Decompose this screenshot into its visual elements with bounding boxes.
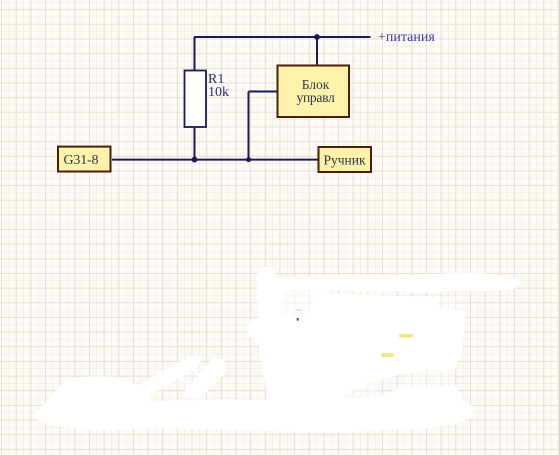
white eraser middle mass xyxy=(298,294,462,399)
leftover yellow dash 1 xyxy=(399,334,413,338)
svg-text:управл: управл xyxy=(297,90,335,105)
white eraser bottom band xyxy=(50,386,473,433)
svg-text:10k: 10k xyxy=(208,85,229,100)
white eraser right column xyxy=(424,306,466,371)
white eraser faint wash in right notch xyxy=(404,370,454,390)
connector G31-8 box xyxy=(58,147,111,172)
leftover faint grey dots xyxy=(297,309,301,311)
connector G31-8 label xyxy=(64,153,99,168)
wire vertical top wire to resistor top xyxy=(194,37,196,71)
white eraser blob top arc xyxy=(257,266,277,282)
leftover yellow dash 2 xyxy=(381,353,394,357)
svg-text:+питания: +питания xyxy=(378,30,435,45)
leftover dark speck xyxy=(297,318,299,321)
net label +питания xyxy=(378,30,435,45)
white eraser right lower nub xyxy=(418,386,461,407)
wire bottom horizontal bus G31-8 to Ручник xyxy=(112,159,318,161)
white eraser faint wash in slot xyxy=(280,283,314,320)
white eraser bottom left blob xyxy=(34,376,154,430)
white eraser left spike 2 xyxy=(180,357,226,399)
wire vertical block pin down to bottom bus xyxy=(248,92,250,160)
white eraser left spike 1 xyxy=(130,356,203,395)
wire vertical junction to block top pin xyxy=(316,37,318,65)
white eraser faint wash between spikes xyxy=(150,366,192,390)
resistor R1 value 10k xyxy=(208,85,229,100)
white eraser faint wash below middle mass xyxy=(328,381,380,407)
block U1 Блок управл box xyxy=(278,66,350,118)
white eraser left column mass xyxy=(248,280,356,407)
wire vertical resistor bottom to bottom bus xyxy=(194,127,196,160)
connector Ручник box xyxy=(319,147,372,172)
block U1 label line2 управл xyxy=(297,90,335,105)
wire block left pin horizontal xyxy=(249,91,277,93)
connector Ручник label xyxy=(324,153,366,168)
node junction bottom right xyxy=(246,157,251,162)
wire top horizontal to +питания xyxy=(194,36,371,38)
resistor R1 label xyxy=(208,72,224,87)
svg-text:Ручник: Ручник xyxy=(324,153,366,168)
white eraser stroke long horizontal xyxy=(262,273,521,292)
svg-text:G31-8: G31-8 xyxy=(64,153,99,168)
resistor R1 body xyxy=(185,71,207,128)
block U1 label line1 Блок xyxy=(302,77,330,92)
node junction top xyxy=(314,34,320,40)
node junction bottom left xyxy=(192,157,198,163)
white eraser faint wash top right of mass xyxy=(438,296,468,314)
